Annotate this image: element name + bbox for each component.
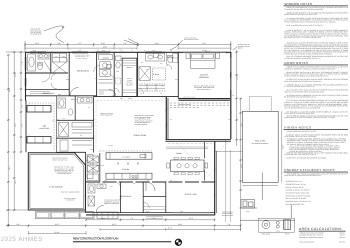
- pantry shelves: [123, 61, 136, 66]
- svg-text:TYP. ALL SIDES: TYP. ALL SIDES: [30, 32, 41, 34]
- svg-text:COVERED ENTRY: COVERED ENTRY: [238, 46, 250, 48]
- svg-text:3068: 3068: [146, 211, 149, 213]
- bottom dimension lines: [86, 219, 215, 221]
- svg-text:4-6: 4-6: [131, 50, 133, 52]
- svg-text:17'-6": 17'-6": [202, 42, 207, 45]
- svg-text:5-2: 5-2: [140, 93, 142, 95]
- svg-text:2-2: 2-2: [226, 53, 228, 55]
- svg-text:19'-2": 19'-2": [55, 223, 60, 226]
- svg-text:4040: 4040: [152, 50, 155, 52]
- svg-text:LAUNDRY: LAUNDRY: [102, 57, 109, 59]
- bath4 fixtures: [88, 184, 95, 193]
- svg-text:3-1: 3-1: [63, 118, 65, 120]
- svg-text:2468: 2468: [116, 71, 119, 73]
- left dimension lines: [7, 55, 9, 226]
- svg-text:18'-10": 18'-10": [54, 231, 60, 234]
- svg-text:2-0: 2-0: [88, 107, 90, 109]
- svg-text:3 CAR GARAGE: 3 CAR GARAGE: [49, 186, 64, 189]
- svg-text:DASHED LINE OF: DASHED LINE OF: [238, 44, 250, 46]
- powder room: [116, 56, 122, 61]
- svg-text:2-8: 2-8: [55, 56, 57, 58]
- master bath fixtures: [146, 53, 165, 61]
- svg-text:FINISH NOTES: FINISH NOTES: [285, 125, 312, 129]
- svg-text:OVERHANG ABV.: OVERHANG ABV.: [30, 30, 42, 32]
- svg-text:POOL EQUIP.: POOL EQUIP.: [261, 234, 271, 236]
- pool dims: [281, 111, 283, 182]
- svg-text:13'-6": 13'-6": [155, 42, 160, 45]
- svg-text:4-0: 4-0: [28, 104, 30, 106]
- svg-text:11'-6": 11'-6": [101, 217, 106, 220]
- svg-text:6'-10": 6'-10": [101, 42, 106, 45]
- svg-text:24'-8": 24'-8": [178, 223, 183, 226]
- svg-text:BEDROOM: BEDROOM: [199, 76, 209, 79]
- svg-text:5050: 5050: [33, 50, 36, 52]
- svg-text:OFFICE / DEN: OFFICE / DEN: [185, 193, 198, 196]
- svg-text:MASTER: MASTER: [200, 74, 208, 77]
- svg-text:BEDROOM #4: BEDROOM #4: [120, 195, 132, 198]
- svg-text:2-8: 2-8: [80, 135, 82, 137]
- svg-text:SEE ROOF PLAN: SEE ROOF PLAN: [30, 34, 42, 36]
- svg-text:UPPER &: UPPER &: [127, 78, 133, 80]
- interior door arcs extra: [51, 56, 144, 94]
- svg-text:4-0: 4-0: [28, 135, 30, 137]
- kitchen lower counter: [106, 173, 152, 179]
- svg-text:2868: 2868: [120, 98, 123, 100]
- svg-text:5-8: 5-8: [146, 69, 148, 71]
- top dimension line: [25, 44, 231, 46]
- svg-text:6'-8": 6'-8": [16, 223, 20, 226]
- powder extras: [114, 88, 119, 93]
- svg-text:12080 MULTI-SLIDE: 12080 MULTI-SLIDE: [183, 97, 195, 99]
- svg-text:SEE STRUCT. PLANS: SEE STRUCT. PLANS: [184, 39, 198, 41]
- svg-text:8'-7": 8'-7": [78, 42, 82, 45]
- svg-text:8080 SL: 8080 SL: [205, 51, 210, 53]
- svg-text:3-0: 3-0: [144, 50, 146, 52]
- laundry extras: [107, 65, 112, 69]
- bedroom2 door arc: [42, 74, 50, 82]
- svg-text:DROP ZONE: DROP ZONE: [96, 165, 104, 167]
- notes column right: [284, 2, 350, 244]
- svg-text:5050: 5050: [180, 211, 183, 213]
- dining table: [171, 160, 205, 172]
- svg-text:SHELVES: SHELVES: [126, 82, 132, 84]
- svg-text:7'-9": 7'-9": [123, 42, 127, 45]
- svg-text:2-2: 2-2: [170, 119, 172, 121]
- laundry machines: [100, 62, 111, 69]
- svg-text:10'-8": 10'-8": [35, 42, 40, 45]
- pool and spa: [242, 97, 278, 183]
- svg-text:PER 2018 IRC R302.6: PER 2018 IRC R302.6: [57, 173, 71, 175]
- hatch marks in patio/porch: [168, 143, 215, 145]
- svg-text:16" O.C.: 16" O.C.: [127, 85, 133, 87]
- svg-text:ABOVE: ABOVE: [238, 48, 243, 50]
- master bed: [191, 53, 216, 69]
- svg-text:2-8: 2-8: [170, 180, 172, 182]
- svg-text:22"x5" LINTEL ABV.: 22"x5" LINTEL ABV.: [184, 37, 197, 39]
- svg-text:16080 SECT.: 16080 SECT.: [86, 211, 95, 213]
- island pendants: [117, 163, 119, 165]
- svg-text:19'-2": 19'-2": [112, 223, 117, 226]
- svg-text:W/ ROD BELOW, TYP.: W/ ROD BELOW, TYP.: [75, 56, 89, 58]
- pool equipment detail: [240, 173, 295, 233]
- svg-text:24'-8": 24'-8": [103, 45, 108, 48]
- svg-text:2668: 2668: [66, 79, 69, 81]
- svg-text:3068: 3068: [104, 180, 107, 182]
- pantry text block: [125, 78, 133, 87]
- bedroom2 closet shelves: [30, 92, 50, 94]
- svg-text:BEDROOM #3: BEDROOM #3: [77, 70, 89, 73]
- svg-text:7'-6": 7'-6": [152, 217, 156, 220]
- garage outline: [28, 153, 85, 210]
- svg-text:BEDROOM #2: BEDROOM #2: [43, 92, 55, 95]
- svg-text:2-4: 2-4: [95, 78, 97, 80]
- mid bath3 fixtures: [58, 98, 66, 108]
- svg-text:1-8: 1-8: [232, 95, 234, 97]
- svg-text:W/ OPENER: W/ OPENER: [66, 199, 74, 201]
- svg-text:2868: 2868: [58, 94, 61, 96]
- door swing arcs: [70, 88, 79, 97]
- pavers below garage: [36, 212, 119, 219]
- pantry hall block: [122, 58, 137, 96]
- svg-text:9-6: 9-6: [162, 85, 164, 87]
- svg-text:VERIFY W/ UTILITY CO.: VERIFY W/ UTILITY CO.: [52, 159, 68, 161]
- svg-text:TRASH: TRASH: [285, 234, 290, 236]
- rotated side dim texts: [8, 61, 285, 184]
- svg-text:2668: 2668: [175, 79, 178, 81]
- svg-text:7'-8": 7'-8": [227, 223, 231, 226]
- svg-text:9-0: 9-0: [228, 119, 230, 121]
- svg-text:BA.4: BA.4: [110, 186, 113, 188]
- svg-text:2-4: 2-4: [98, 151, 100, 153]
- svg-text:12" DEEP UPPER SHELF: 12" DEEP UPPER SHELF: [74, 54, 90, 56]
- patio hatch marks: [170, 103, 229, 107]
- svg-text:6-0: 6-0: [112, 95, 114, 97]
- bath2 fixtures: [28, 54, 36, 71]
- svg-text:4040: 4040: [78, 50, 81, 52]
- svg-text:16'x8' SECT. GARAGE DOOR: 16'x8' SECT. GARAGE DOOR: [61, 192, 80, 194]
- small dimension ticks and texts scatter: [28, 50, 234, 213]
- linen closet: [53, 54, 67, 63]
- svg-text:46'-4": 46'-4": [168, 227, 173, 230]
- svg-text:POOL & SPA: POOL & SPA: [255, 140, 266, 143]
- svg-text:PWDR: PWDR: [128, 98, 132, 100]
- svg-text:17'-2": 17'-2": [189, 217, 194, 220]
- svg-text:WINDOW NOTES: WINDOW NOTES: [285, 2, 313, 6]
- mid-left bath/wic cluster walls: [57, 119, 94, 121]
- svg-text:B.B.Q.: B.B.Q.: [276, 231, 281, 233]
- svg-text:2-6: 2-6: [166, 65, 168, 67]
- window symbols on top wall: [30, 51, 162, 53]
- svg-text:2468: 2468: [90, 149, 93, 151]
- svg-text:ENERGY EFFICIENCY NOTES: ENERGY EFFICIENCY NOTES: [285, 168, 335, 172]
- svg-text:2-8: 2-8: [120, 50, 122, 52]
- svg-text:GATE PER MAG: GATE PER MAG: [222, 215, 234, 217]
- svg-text:PER OWNER: PER OWNER: [125, 83, 133, 85]
- exterior walls: [25, 51, 231, 53]
- svg-text:2-6: 2-6: [170, 50, 172, 52]
- bedroom2 door arcs: [51, 83, 57, 89]
- master bath extra detail: [166, 53, 168, 65]
- svg-text:DOOR NOTES: DOOR NOTES: [285, 61, 309, 65]
- svg-text:AT ALL CLOSETS: AT ALL CLOSETS: [77, 58, 88, 60]
- svg-text:3030: 3030: [102, 50, 105, 52]
- mud hall walls: [85, 153, 87, 214]
- svg-text:42" REF: 42" REF: [108, 145, 113, 147]
- svg-text:3-0: 3-0: [141, 62, 143, 64]
- svg-text:NEW CONSTRUCTION FLOOR PLAN: NEW CONSTRUCTION FLOOR PLAN: [73, 237, 119, 241]
- svg-text:SELF-CLOSING: SELF-CLOSING: [222, 213, 233, 215]
- svg-text:LOWER: LOWER: [127, 80, 132, 82]
- svg-text:GREAT ROOM: GREAT ROOM: [134, 134, 147, 137]
- svg-text:POOL BARRIER: POOL BARRIER: [222, 211, 233, 213]
- great room dashed ceiling: [96, 101, 165, 150]
- right dimension lines: [236, 50, 238, 142]
- bedroom3 top note: [74, 54, 90, 59]
- svg-text:5'-8": 5'-8": [57, 42, 61, 45]
- water heater detail: [240, 200, 258, 209]
- svg-text:7'-6": 7'-6": [130, 217, 134, 220]
- north arrow: [175, 239, 181, 245]
- leader curve: [44, 26, 237, 50]
- svg-text:6-8: 6-8: [160, 93, 162, 95]
- kitchen island: [106, 153, 152, 160]
- office window marks: [172, 212, 210, 214]
- svg-text:AREA CALCULATIONS: AREA CALCULATIONS: [299, 227, 342, 231]
- svg-text:WIC: WIC: [133, 183, 136, 185]
- mud closets: [88, 156, 99, 163]
- interior walls upper band: [50, 53, 52, 74]
- dining right wall: [204, 142, 206, 181]
- svg-text:1-6: 1-6: [52, 120, 54, 122]
- svg-text:LINE OF ROOF: LINE OF ROOF: [30, 29, 40, 31]
- svg-text:2025 AHMES: 2025 AHMES: [1, 236, 43, 243]
- kitchen upper cab dashes + burners: [100, 150, 152, 152]
- side courtyard: [25, 101, 27, 153]
